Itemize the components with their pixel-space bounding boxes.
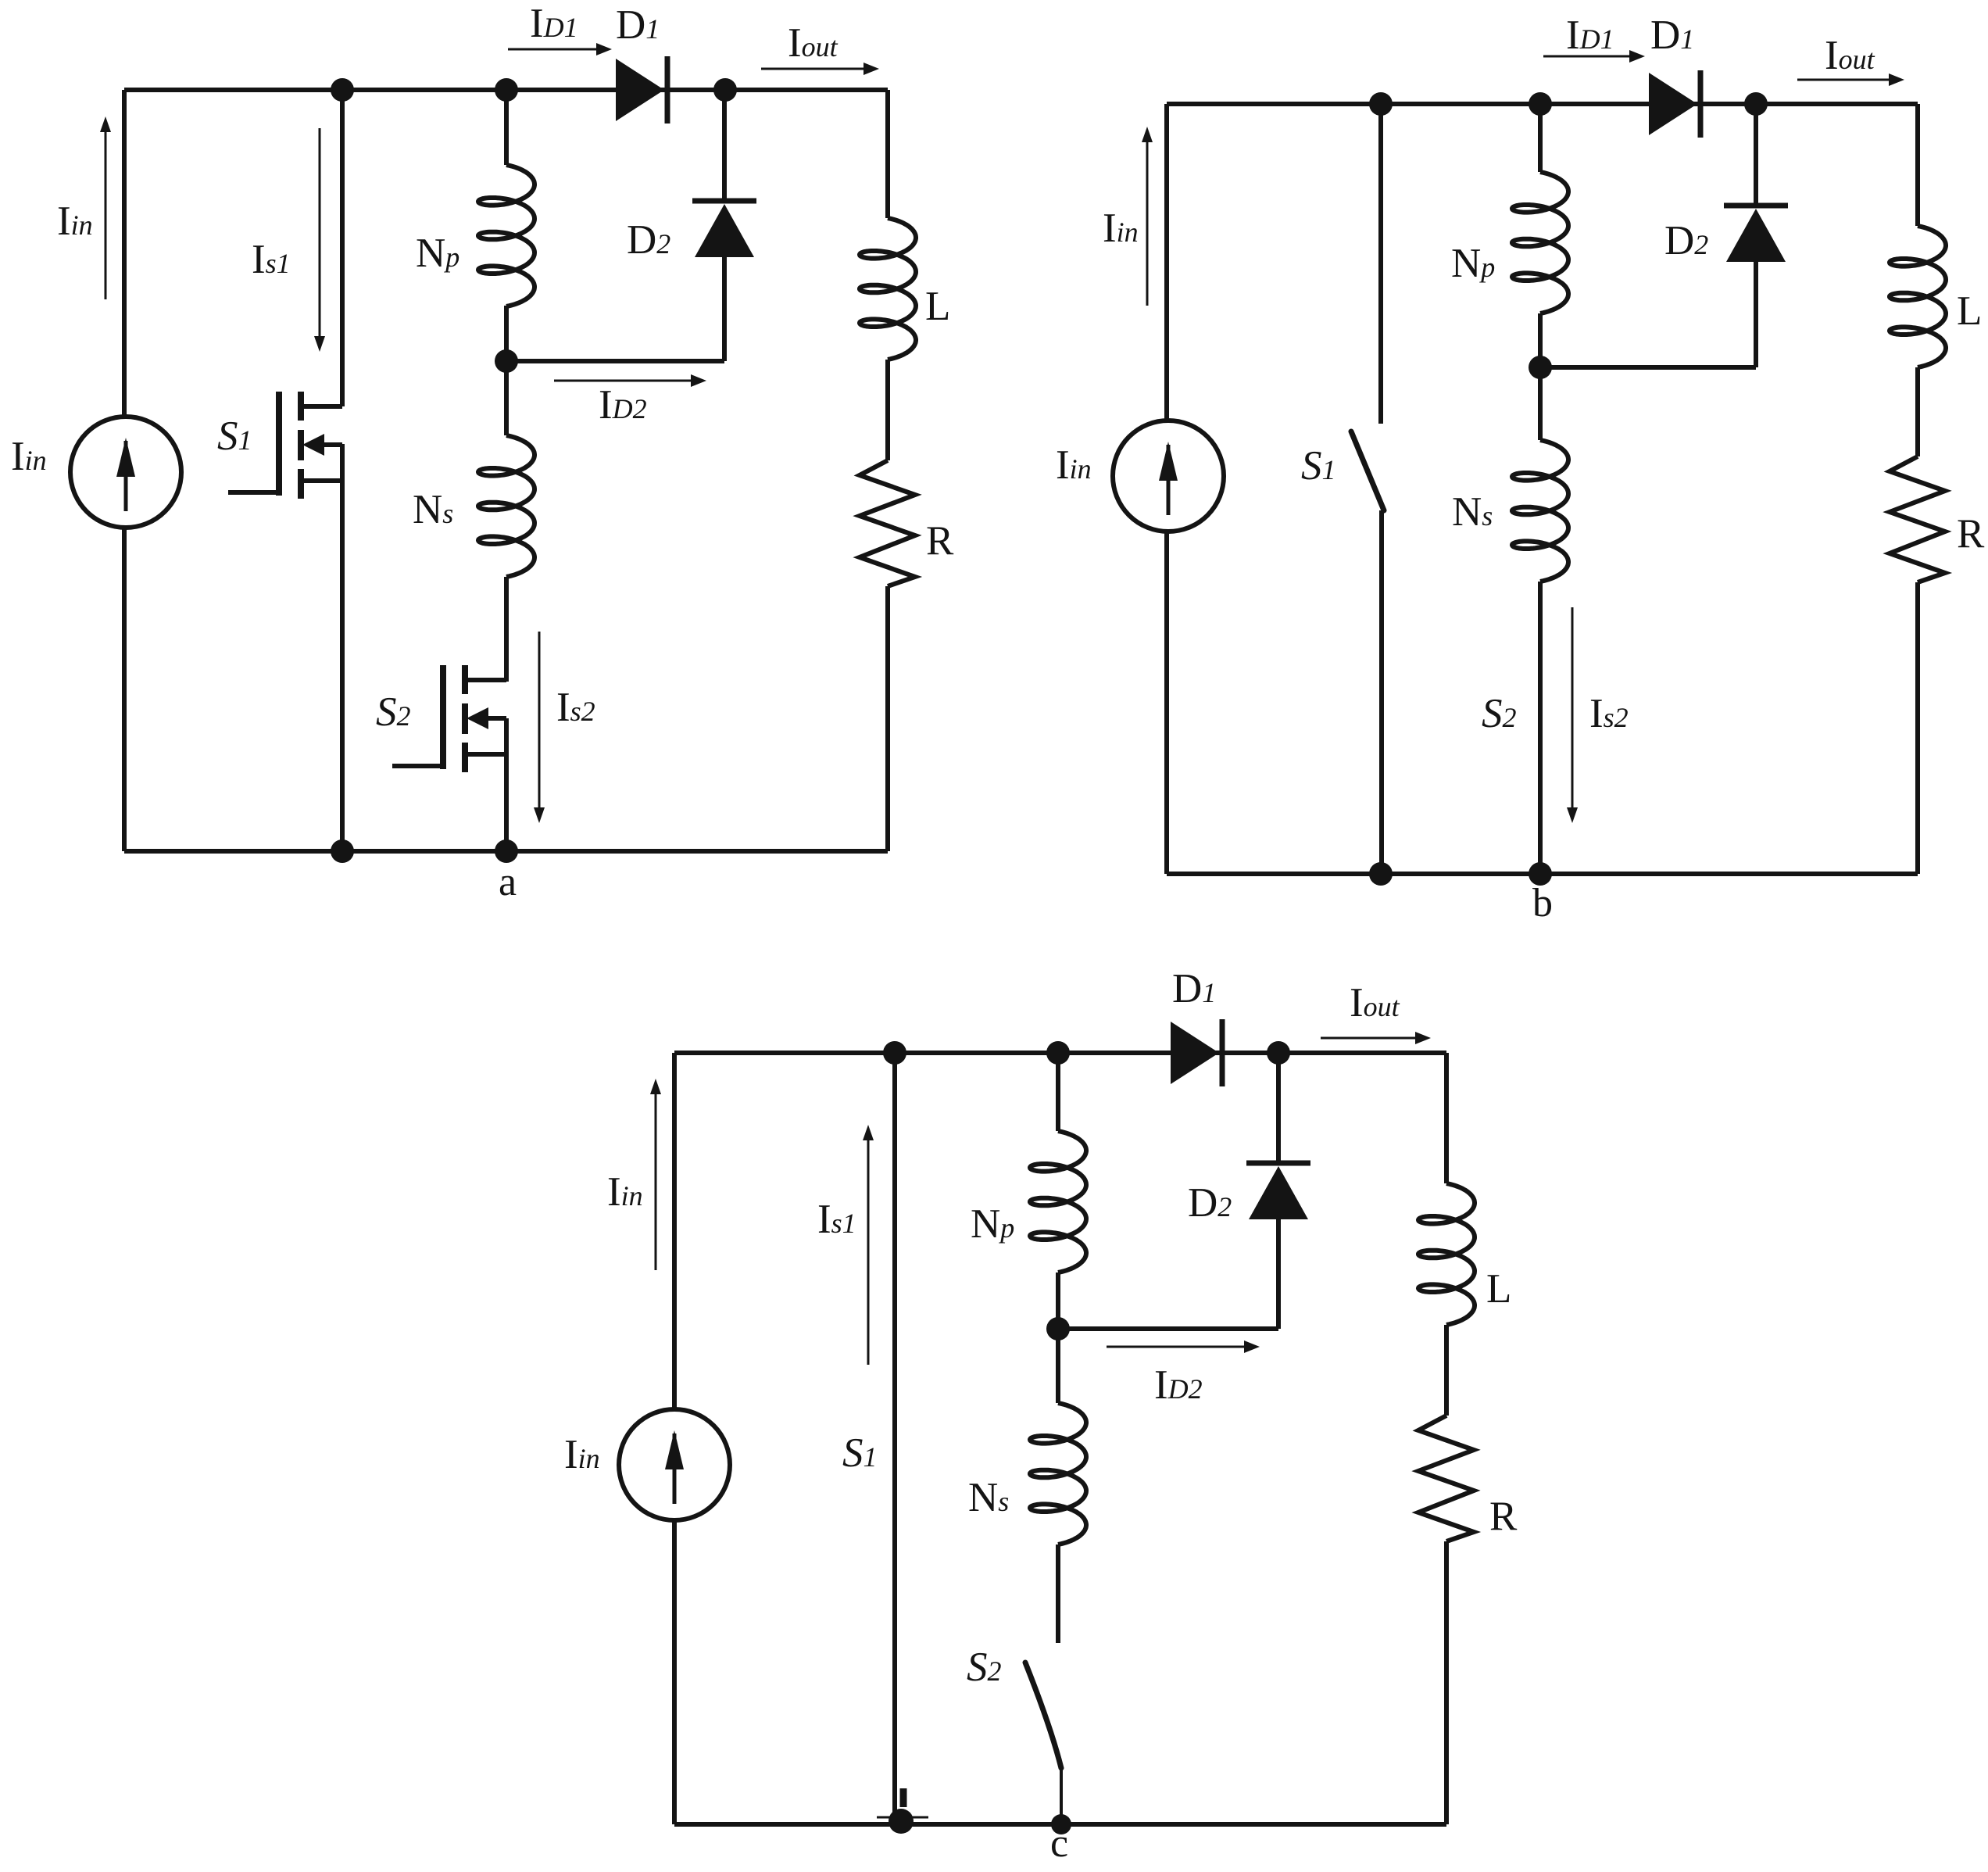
svg-text:R: R [926,518,954,564]
svg-text:L: L [1957,288,1982,334]
svg-text:R: R [1957,511,1985,557]
svg-text:R: R [1489,1494,1518,1539]
svg-text:a: a [499,860,517,904]
svg-text:c: c [1050,1821,1068,1866]
svg-text:L: L [1486,1266,1511,1312]
svg-text:L: L [925,284,950,329]
svg-text:b: b [1532,881,1553,925]
